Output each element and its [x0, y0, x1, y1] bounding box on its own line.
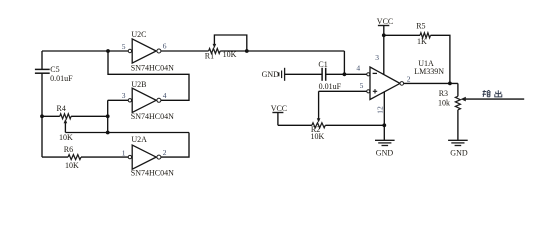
wire: R6 to U2A pin1 [81, 156, 128, 158]
op-amp U1A LM339N [367, 67, 404, 100]
wire: R2 to U1A gnd vertical [325, 124, 384, 126]
capacitor C1 [322, 68, 326, 81]
svg-text:0.01uF: 0.01uF [319, 82, 342, 91]
power VCC (R2 supply) [272, 113, 283, 126]
svg-text:LM339N: LM339N [414, 67, 444, 76]
junction dot (R4 right / pin3 vert) [106, 114, 110, 118]
ground GND (C1 left, power-ground bars) [279, 68, 285, 81]
wire: VCC node to R5 [384, 34, 420, 36]
svg-text:10K: 10K [311, 132, 325, 141]
resistor R5 [420, 33, 431, 38]
inverter U2B SN74HC04N [128, 88, 161, 112]
net label 输出 (output), drawn glyphs [482, 90, 501, 97]
svg-text:U2C: U2C [131, 30, 146, 39]
wire: pin5 drop to R2 wiper [317, 91, 321, 122]
svg-text:VCC: VCC [271, 104, 287, 113]
capacitor C5 [35, 69, 50, 73]
wire: U2B pin3 horizontal [108, 99, 129, 101]
wire: R4 line left segment [42, 115, 60, 117]
wire: U2A output loop (right, up to wiper net) [161, 133, 189, 158]
wire: U1A output to R3 corner [404, 82, 458, 84]
svg-text:SN74HC04N: SN74HC04N [131, 112, 174, 121]
resistor R3 (pot body) [455, 96, 460, 110]
svg-text:R6: R6 [64, 145, 73, 154]
svg-text:10k: 10k [438, 99, 450, 108]
svg-text:10K: 10K [223, 50, 237, 59]
junction dot (R1 strap / top net) [245, 49, 249, 53]
svg-text:1K: 1K [417, 37, 427, 46]
wire: U2B pin3 vertical [107, 100, 109, 132]
svg-text:C1: C1 [318, 60, 327, 69]
svg-text:4: 4 [163, 91, 167, 100]
wire: R3 bottom to GND [457, 110, 459, 141]
svg-text:3: 3 [375, 53, 379, 62]
wire: R3 top segment [457, 83, 459, 96]
svg-text:VCC: VCC [377, 17, 393, 26]
wire: R5 to output node [431, 35, 450, 83]
svg-text:R1: R1 [205, 51, 214, 60]
svg-text:6: 6 [163, 41, 167, 50]
svg-text:2: 2 [163, 148, 167, 157]
ground GND (U1A) [375, 140, 395, 145]
svg-text:4: 4 [356, 63, 360, 72]
svg-text:2: 2 [407, 74, 411, 83]
svg-text:SN74HC04N: SN74HC04N [131, 63, 174, 72]
svg-text:3: 3 [122, 91, 126, 100]
wire: U2C out to R1 [161, 50, 209, 52]
svg-text:C5: C5 [50, 65, 59, 74]
junction dot (C1 node) [343, 72, 347, 76]
junction dot (top net / U2B out loop) [106, 49, 110, 53]
svg-text:U2A: U2A [131, 135, 147, 144]
wire: C1 to U1A pin4 [326, 73, 367, 75]
svg-text:10K: 10K [59, 133, 73, 142]
junction dot (VCC / R5) [382, 33, 386, 37]
resistor R6 [68, 155, 81, 160]
svg-text:SN74HC04N: SN74HC04N [131, 168, 174, 177]
svg-text:GND: GND [376, 149, 394, 158]
junction dot (left bus / R4 line) [40, 114, 44, 118]
resistor R1 (pot body) [209, 49, 221, 54]
resistor R4 (pot body) [60, 114, 71, 119]
wire: C5 top riser [41, 51, 43, 69]
svg-text:10K: 10K [65, 161, 79, 170]
wire: C5 bottom to R6 line (left bus) [41, 73, 43, 157]
wire: R6 line left segment [42, 156, 68, 158]
ground GND (R3) [448, 140, 468, 145]
R1 wiper arrow and strap to right terminal [213, 35, 247, 51]
R3 wiper arrow / output stub [461, 97, 525, 102]
junction dot (pin3 vert / wiper net) [106, 131, 110, 135]
power VCC (U1A supply, top) [378, 26, 389, 75]
inverter U2A SN74HC04N [128, 145, 161, 169]
inverter U2C SN74HC04N [128, 39, 161, 63]
R4 wiper arrow [64, 119, 68, 133]
wire: VCC to R2 [278, 124, 312, 126]
wire: R4 line right segment [71, 115, 108, 117]
svg-text:5: 5 [360, 81, 364, 90]
junction dot (R5 / output) [448, 82, 452, 86]
junction dot (R2 / gnd vertical) [382, 123, 386, 127]
svg-text:GND: GND [450, 148, 468, 157]
svg-text:1: 1 [122, 149, 126, 158]
svg-text:0.01uF: 0.01uF [50, 74, 73, 83]
wire: drop from top net to C1 line [343, 51, 345, 74]
wire: U1A gnd pin vertical [383, 92, 385, 140]
svg-text:5: 5 [122, 42, 126, 51]
svg-text:GND: GND [262, 70, 280, 79]
svg-text:R3: R3 [439, 89, 448, 98]
wire: U1A pin5 horizontal [319, 90, 367, 92]
wire: GND to C1 [285, 73, 323, 75]
svg-text:R4: R4 [57, 104, 66, 113]
wire: U2B output loop (right, up, left to top net) [108, 51, 189, 100]
resistor R2 (pot body) [312, 123, 325, 128]
wire: top net C5/U2B.4/U2C.5 horizontal [42, 50, 128, 52]
svg-text:R5: R5 [416, 22, 425, 31]
wire: wiper net y=132.5 to U2A output loop [65, 132, 189, 134]
svg-text:12: 12 [376, 106, 385, 114]
wire: R1 to C1 node corner [220, 50, 344, 52]
svg-text:U2B: U2B [131, 80, 146, 89]
